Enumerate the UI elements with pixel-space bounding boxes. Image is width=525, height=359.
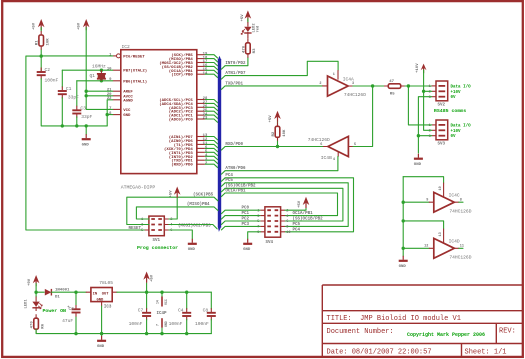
svg-text:+5V: +5V [298,200,302,208]
node TXD/PD1 bus exit [221,86,225,90]
wire R2 to RXD wire [277,141,279,146]
junction C6 top [74,291,77,294]
supply symbol +5V SV4 [303,197,310,205]
wire +5V to R2 [277,122,279,126]
capacitor C3 [72,109,81,111]
wire XTAL2 wire [62,69,112,71]
svg-text:GND: GND [164,321,168,327]
wire IC2 pin 27 to bus [205,103,218,107]
supply symbol +5V LED2 column [245,10,252,18]
wire IC2 pin 18 to bus [205,59,218,63]
svg-text:78L05: 78L05 [99,280,113,286]
wire AGND + GND to rail [107,100,113,126]
supply symbol +5V AVCC [83,19,90,27]
wire +5V to LED2 [247,19,249,23]
junction R2 bottom [276,145,279,148]
IC2 pin 16 (SS/OC1B)/PB2 [197,65,205,67]
junction input node [34,291,37,294]
svg-text:PC4: PC4 [293,228,301,232]
junction C4 top [185,291,188,294]
svg-text:10: 10 [439,186,443,190]
wire IC4D input wire [403,247,429,249]
IC4D enable pin 13 [443,229,445,243]
IC2 pin 25 (ADC2)/PC2 [197,110,205,112]
wire net TXD/PD1 to IC4A input [225,85,323,87]
IC4D output pin 11 [454,247,459,249]
wire RESET net R1 to SV1 pin5 [26,56,144,230]
IC2 pin 3 (TXD)/PD1 [197,159,205,161]
svg-text:14: 14 [156,300,160,304]
svg-text:74HC126D: 74HC126D [449,209,471,215]
wire IC2 pin 28 to bus [205,100,218,104]
svg-text:10K: 10K [47,38,51,46]
IC IC2 ATMEGA8-DIP body [121,50,197,174]
wire SV4 pin2 to +5V [285,208,306,210]
svg-text:+10V: +10V [451,91,462,95]
wire R5 to SV2 pin1 [405,85,432,87]
wire enable loop IC4D [403,221,443,229]
wire RESET to IC2 pin1 [41,55,113,57]
capacitor C8 [207,312,216,314]
wire net ATN1/PD7 to IC4A enable [225,61,338,75]
svg-text:GND: GND [97,345,105,349]
IC2 pin 6 (XCK/T0)/PD4 [197,147,205,149]
svg-text:6: 6 [320,143,322,147]
svg-text:Copyright Mark Pepper 2006: Copyright Mark Pepper 2006 [407,332,485,338]
SV4 pins 3/4 [260,215,285,217]
svg-text:PC0: PC0 [242,207,250,211]
wire XTAL1 wire [77,80,113,82]
SV1 pins 1/2 [144,218,169,220]
svg-text:+5V: +5V [151,274,155,282]
IC2 pin 17 (MOSI/OC2)/PB3 [197,62,205,64]
svg-text:VCC: VCC [164,299,168,305]
IC4A enable pin 1 [337,71,339,80]
wire IC2 pin 16 to bus [205,66,218,70]
svg-text:33pF: 33pF [81,114,92,120]
IC4C input pin 9 [429,201,434,203]
supply symbol +5V rail [143,272,150,280]
junction AVCC tap [85,94,88,97]
svg-text:12: 12 [424,245,428,249]
IC3 IN pin [86,291,91,293]
node PC5 bus exit [221,183,225,187]
svg-text:Document Number:: Document Number: [327,328,394,336]
svg-text:PC6/RESET: PC6/RESET [123,54,145,59]
wire C4 top lead [186,292,188,309]
IC2 pin 20 AVCC [113,95,121,97]
junction C6 bottom [74,332,77,335]
wire D1 to IC3 IN [51,291,86,293]
junction C1 at rail [61,124,64,127]
svg-text:R2: R2 [272,131,276,136]
IC2 pin 27 (ADC4/SDA)/PC4 [197,102,205,104]
wire AVCC wire [86,95,113,97]
node ATN1/PD7 bus exit [221,76,225,80]
supply symbol +5V SV1 [174,187,181,195]
svg-text:74HC126D: 74HC126D [344,92,366,98]
svg-text:IC4P: IC4P [157,312,168,316]
wire IC4C/D ground rail [402,177,404,257]
svg-text:74HC126D: 74HC126D [449,255,471,261]
wire IC2 pin 4 to bus [205,156,218,160]
svg-text:Data I/O: Data I/O [451,123,472,128]
wire C8 top lead [210,292,212,309]
junction GND pin tap [106,113,109,116]
wire SV1 pin2 to +5V [169,198,177,219]
svg-text:(ADC0)/PC0: (ADC0)/PC0 [169,118,194,123]
svg-text:GND: GND [399,265,407,269]
svg-text:C7: C7 [138,308,144,314]
ground symbol GND (RS485 0V) [417,154,419,158]
svg-text:AREF: AREF [123,91,133,95]
svg-text:0V: 0V [451,96,457,100]
SV4 pins 9/10 [260,231,285,233]
wire +9V to node [35,284,37,293]
svg-text:470: 470 [242,45,246,53]
svg-text:1: 1 [333,73,335,77]
svg-text:IC3: IC3 [104,306,112,310]
svg-text:IC4C: IC4C [449,193,460,199]
wire IC4C input wire [403,201,429,203]
svg-text:1: 1 [429,85,431,89]
IC2 pin 5 (INT1)/PD3 [197,151,205,153]
svg-text:2: 2 [319,82,321,86]
svg-text:D1: D1 [55,296,60,300]
IC2 pin 26 (ADC3)/PC3 [197,106,205,108]
IC2 pin 19 (SCK)/PB5 [197,54,205,56]
wire enable loop IC4C [403,177,443,183]
IC4A output pin 3 [348,85,353,87]
junction Q1 top [100,69,103,72]
wire net (SS)OC1B/PB2 to SV4 pin6 [225,188,343,221]
svg-text:LED1: LED1 [25,299,29,309]
junction IC4C input [402,201,405,204]
svg-text:C8: C8 [203,308,209,314]
svg-text:(RXD)/PD0: (RXD)/PD0 [171,163,193,168]
crystal Q1 16MHz [97,74,106,79]
connector SV1 [149,216,164,236]
wire R6 to bottom rail [36,329,211,333]
IC2 pin 10 PB7(XTAL2) [113,69,121,71]
SV4 pins 5/6 [260,220,285,222]
ground symbol GND (unused gates) [402,256,404,260]
wire IC4D output stub [459,247,463,249]
IC2 pin 18 (MISO)/PB4 [197,58,205,60]
wire IC2 pin 13 to bus [205,137,218,141]
wire C7 top lead [146,292,148,309]
svg-text:47uF: 47uF [62,318,73,324]
IC4B output pin 6 [323,146,328,148]
wire C6 top lead [75,292,77,305]
junction R5 output [407,84,410,87]
SV1 pins 3/4 [144,224,169,226]
svg-text:IN: IN [93,292,98,296]
wire IC2 pin 15 to bus [205,70,218,74]
wire IC2 pin 12 to bus [205,141,218,145]
wire C4 bottom lead [186,320,188,334]
IC2 pin 7 VCC [113,108,121,110]
wire IC2 pin 17 to bus [205,63,218,67]
wire C1 top lead [61,70,63,87]
wire +10V to SV2/SV3 pin2 [424,70,432,130]
svg-text:GND: GND [97,299,105,303]
wire IC2 pin 26 to bus [205,107,218,111]
wire node to D1 [36,291,44,293]
svg-text:R5: R5 [390,93,395,97]
IC4B enable pin 4 [337,152,339,157]
svg-text:GND: GND [414,163,422,167]
IC2 pin 4 (INT0)/PD2 [197,155,205,157]
svg-text:+5V: +5V [33,22,37,30]
IC2 pin 21 AREF [113,90,121,92]
supply symbol +5V R1 [38,19,45,27]
wire C3 top lead [76,81,78,106]
wire net INT0/PD2 to R3 [225,58,248,66]
supply symbol +9V in [33,275,40,283]
resistor R6 [34,318,39,329]
svg-text:IC4A: IC4A [343,76,354,82]
wire C3 to rail [76,117,78,126]
ground symbol GND (SV1) [191,239,193,243]
connector SV2 [436,81,448,101]
svg-text:+5V: +5V [78,22,82,30]
title block outline [322,285,522,357]
resistor R1 [39,35,44,46]
svg-text:9: 9 [426,199,428,203]
junction C3 at rail [75,124,78,127]
IC3 GND pin [101,302,103,306]
svg-text:10: 10 [286,231,290,235]
junction gnd stem [85,124,88,127]
svg-text:+10V: +10V [451,130,462,134]
buffer IC4A 74HC126D [328,76,349,96]
svg-text:Prog connector: Prog connector [137,245,178,251]
svg-text:0V: 0V [451,135,457,139]
svg-text:Data I/O: Data I/O [451,84,472,89]
supply symbol +10V [421,64,427,71]
junction C4 bottom [185,332,188,335]
svg-text:GND: GND [243,248,251,252]
svg-text:+10V: +10V [416,63,420,73]
svg-text:4: 4 [333,158,335,162]
junction +5V arrow tap [145,291,148,294]
svg-text:C6: C6 [69,306,75,312]
ground symbol GND (regulator) [101,336,103,340]
wire to LED1 [35,292,37,297]
svg-text:+9V: +9V [28,278,32,286]
svg-text:C4: C4 [178,308,184,314]
IC4D input pin 12 [429,247,434,249]
junction IC4A-out/IC4B-in [371,84,374,87]
IC2 pin 22 AGND [113,99,121,101]
svg-text:OC1A/PB1: OC1A/PB1 [293,211,314,216]
wire IC4C output stub [459,201,463,203]
svg-text:GND: GND [82,143,90,147]
svg-text:IC4D: IC4D [449,239,460,245]
junction IC4D enable tap [402,219,405,222]
wire IC2 pin 3 to bus [205,160,218,164]
resistor R5 47 [388,84,400,89]
svg-text:R1: R1 [36,40,40,45]
buffer IC4C 74HC126D [434,192,455,212]
wire IC2 pin 2 to bus [205,164,218,168]
svg-text:470: 470 [31,321,35,329]
svg-text:(ICP)/PB0: (ICP)/PB0 [171,73,193,78]
IC2 pin 8 GND [113,114,121,116]
IC2 pin 28 (ADC5/SCL)/PC5 [197,99,205,101]
junction IC4P GND tap [160,332,163,335]
svg-text:SV4: SV4 [266,241,274,245]
LED LED2 [244,27,251,32]
wire AREF wire [86,90,113,92]
junction Q1 bottom [100,79,103,82]
IC2 pin 11 (T1)/PD5 [197,143,205,145]
LED LED1 Power ON [32,302,39,307]
IC2 pin 14 (ICP)/PB0 [197,73,205,75]
IC2 pin 2 (RXD)/PD0 [197,163,205,165]
wire net PC3 bus to SV4 [221,226,260,230]
svg-text:Power ON: Power ON [43,308,67,314]
wire IC2 pin 14 to bus [205,74,218,78]
svg-text:GND: GND [188,248,196,252]
wire C8 bottom lead [210,320,212,334]
IC2 pin 9 PB6(XTAL1) [113,80,121,82]
svg-text:PC1: PC1 [242,212,250,216]
wire net MISO: SV1 pin1 to bus [136,207,218,219]
svg-text:C1: C1 [66,86,72,92]
IC2 pin 12 (AIN0)/PD6 [197,140,205,142]
resistor R3 [246,43,251,54]
wire +5V to AREF/AVCC/VCC [86,28,113,110]
wire C2 to ground rail [41,79,107,126]
svg-text:+5V: +5V [269,115,273,123]
wire +5V to R1 [40,28,42,32]
wire net MOSI: SV1 pin4 to bus [169,225,217,229]
svg-text:IC2: IC2 [122,44,131,50]
bus PB/PC/PD (blue) [218,59,221,228]
junction AREF tap [85,90,88,93]
IC3 OUT pin [112,291,117,293]
wire IC2 pin 25 to bus [205,111,218,115]
svg-text:ATMEGA8-DIPP: ATMEGA8-DIPP [121,184,156,190]
svg-text:SV1: SV1 [153,239,161,243]
svg-text:+5V: +5V [169,190,173,198]
wire R1 to C2 [40,50,42,71]
SV1 pins 5/6 [144,229,169,231]
wire C7 bottom lead [146,320,148,334]
wire IC2 pin 19 to bus [205,55,218,59]
wire IC2 pin 23 to bus [205,119,218,123]
wire IC4A out to IC4B in [353,86,373,147]
wire net PC1 bus to SV4 [221,216,260,220]
wire net SCK: SV1 pin3 to bus [127,197,218,224]
svg-text:RS485 comms: RS485 comms [434,108,466,114]
IC2 pin 13 (AIN1)/PD7 [197,136,205,138]
svg-text:21: 21 [107,89,112,93]
svg-text:R3: R3 [253,48,257,53]
svg-text:100nF: 100nF [129,321,143,327]
svg-text:Q1: Q1 [89,73,95,79]
IC2 pin 23 (ADC0)/PC0 [197,118,205,120]
svg-text:16MHz: 16MHz [92,64,106,70]
svg-text:33pF: 33pF [68,94,79,100]
svg-text:IC4B: IC4B [321,155,332,161]
svg-text:SV2: SV2 [438,104,446,108]
junction IC4P VCC tap [160,291,163,294]
svg-text:PB7(XTAL2): PB7(XTAL2) [123,69,147,74]
svg-text:100nF: 100nF [169,321,183,327]
IC4C output pin 8 [454,201,459,203]
IC2 pin 24 (ADC1)/PC1 [197,114,205,116]
wire C1 to rail [61,98,63,126]
wire rail to gnd symbol [85,126,87,135]
svg-text:+5V: +5V [241,14,245,22]
svg-text:10K: 10K [283,129,287,137]
node INT0/PD2 bus exit [221,66,225,70]
svg-text:red: red [256,25,261,33]
resistor R2 [275,126,280,137]
wire IC2 pin 24 to bus [205,115,218,119]
IC2 pin 1 PC6/RESET [113,55,117,57]
buffer IC4D 74HC126D [434,238,455,258]
svg-text:(MISO)PB4: (MISO)PB4 [187,202,210,207]
connector SV3 [436,120,448,140]
svg-text:SV3: SV3 [438,143,446,147]
svg-text:13: 13 [439,232,443,236]
supply symbol +5V R2 [274,111,281,119]
wire C6 to bottom rail [75,317,77,334]
wire IC2 pin 6 to bus [205,148,218,152]
wire IC2 pin 11 to bus [205,144,218,148]
IC2 pin 15 (OC1A)/PB1 [197,69,205,71]
wire +5V rail [117,291,211,293]
capacitor C7 [142,312,151,314]
wire net OC1A/PB1 to SV4 pin4 [225,193,337,216]
IC4B input pin 5 [348,146,353,148]
svg-text:74HC126D: 74HC126D [308,137,330,143]
svg-text:47: 47 [389,80,394,84]
node RXD/PD0 bus exit [221,147,225,151]
IC4A input pin 2 [323,85,328,87]
junction 0V at SV3 pin3 [417,134,420,137]
wire net PC0 bus to SV4 [221,210,260,214]
wire R5 node to SV3 pin1 [408,86,431,125]
wire SV4 pin9 to GND [248,232,261,239]
svg-text:VCC: VCC [123,109,131,113]
wire net PC5 to SV4 pin8 [225,183,348,227]
wire IC2 pin 5 to bus [205,152,218,156]
svg-text:GND: GND [123,114,131,118]
svg-text:100nF: 100nF [45,78,59,84]
svg-text:10: 10 [107,68,112,72]
node (SS)OC1B/PB2 bus exit [221,188,225,192]
svg-text:100nF: 100nF [195,321,209,327]
IC4C enable pin 10 [443,183,445,197]
wire net RXD/PD0 to IC4B output [225,146,323,148]
junction +10V at SV2 pin2 [422,90,425,93]
svg-text:7: 7 [156,324,160,326]
svg-text:PC3: PC3 [242,223,250,227]
junction RESET node [40,54,43,57]
wire net PC2 bus to SV4 [221,221,260,225]
svg-text:REV:: REV: [499,328,516,336]
buffer IC4B 74HC126D [328,136,349,156]
svg-text:C3: C3 [80,105,86,111]
svg-text:6: 6 [286,220,288,224]
svg-text:11: 11 [460,245,464,249]
svg-text:Sheet: 1/1: Sheet: 1/1 [465,349,507,357]
